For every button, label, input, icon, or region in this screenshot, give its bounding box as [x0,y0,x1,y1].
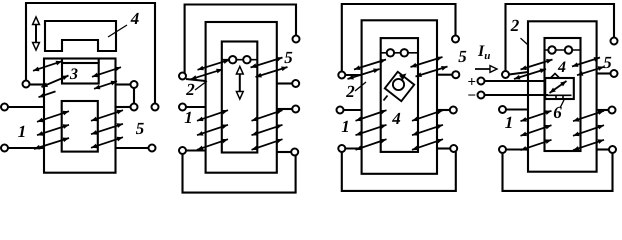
svg-text:−: − [468,88,477,104]
terminal: fig3 winding-1 upper left terminal [337,107,344,114]
wire: fig3 right middle tap to core [437,109,450,111]
moving coil 6 (fig4): bottom conductor line with ticks [548,94,572,96]
terminal: fig1 loop output terminal (right) [152,104,159,111]
terminal: fig4 source − terminal [478,92,485,99]
wire: fig4 winding-1 upper left to core [506,108,528,110]
terminal: fig2 loop end (top right) [293,36,300,43]
svg-text:5: 5 [284,48,293,67]
wire: fig3 bottom right tap to core [437,147,450,149]
callout line for label 4 (fig1) [108,25,127,37]
wire: fig1 right tap lower to core [116,106,132,108]
svg-text:4: 4 [391,109,401,128]
terminal: fig4 bottom right terminal [609,146,616,153]
wire: fig2 outer loop from top-left terminal to top-right terminal [185,5,296,80]
wire: fig4 winding-5 right end to tap terminal [597,72,611,74]
core window (fig2) [222,42,257,153]
winding 5 on right limb (fig4) [572,57,600,67]
svg-text:3: 3 [69,66,78,83]
wire: fig4 bottom left terminal to core [506,148,528,150]
winding on right limb (fig3) [412,110,443,121]
movable core carrier line (fig4) [545,49,581,51]
moving coil 6 (fig4): winding hatch [550,81,567,93]
wire: fig1 winding-5 lower terminal to core [116,147,150,149]
winding 1 on left limb (fig4) [521,110,552,121]
terminal: fig4 winding-2 left terminal [502,71,509,78]
callout line for label 2 (fig2) [195,81,207,90]
svg-text:2: 2 [185,80,195,99]
core: fig3 outer magnetic core [362,20,437,174]
terminal: fig1 winding-1 lower terminal (left) [1,145,8,152]
terminal: fig1 winding-5 lower terminal (right) [149,145,156,152]
terminal: fig3 bottom right terminal [450,145,457,152]
svg-text:1: 1 [18,122,27,141]
wire: fig2 winding-5 right end to tap terminal [277,82,293,84]
wire: fig3 outer loop from top-left terminal to top-right terminal [342,4,456,72]
terminal: fig4 winding-1 upper left terminal [499,106,506,113]
terminal: fig2 winding-1 upper left terminal [179,104,186,111]
wire: fig4 bottom series loop [503,153,613,191]
double arrow: fig1 core movement [33,17,40,50]
wire: fig2 bottom series loop [183,154,296,193]
terminal: fig4 loop end (top right) [611,38,618,45]
moving element: tilted frame with roller (fig3) [384,72,415,101]
core: fig4 outer magnetic core [528,21,597,171]
wire: fig3 bottom left terminal to core [345,147,361,149]
svg-text:5: 5 [603,53,612,72]
core: fig2 outer magnetic core [206,22,277,173]
winding 2 on left limb (fig2) [198,59,230,70]
callout line for label 6 (fig4) [560,100,564,108]
double arrow: fig2 core movement [236,67,243,100]
winding 1 on left limb (fig3) [356,110,387,121]
wire: fig1 outer loop from coil-3 left end over the top to output terminal [26,3,155,104]
wire: fig1 winding-1 lower terminal to core [8,147,44,149]
terminal: fig3 right middle tap [450,107,457,114]
wire: fig2 winding-2 left terminal to core [186,79,206,81]
wire: fig3 bottom series loop [342,152,456,191]
wire: fig2 bottom left terminal to core [186,149,206,151]
terminal: fig3 loop end (top right) [452,36,459,43]
svg-text:1: 1 [184,108,193,127]
svg-text:1: 1 [505,113,514,132]
svg-text:4: 4 [130,9,140,28]
movable core carrier line (fig2) [222,59,257,61]
wire: fig4 bottom right tap to core [597,148,609,150]
winding 5 on right limb (fig2) [251,57,283,68]
terminal: fig4 source + terminal [478,78,485,85]
svg-text:1: 1 [341,117,350,136]
terminal: fig4 bottom left terminal [499,146,506,153]
winding 1 on right limb (fig2) [252,110,283,121]
wire: fig4 outer loop from top-left terminal to top-right terminal [506,4,615,71]
winding on right limb (fig4) [573,110,604,121]
terminal: fig4 right tap upper [611,70,618,77]
wire: fig3 winding-5 right end to tap terminal [437,74,452,76]
wire: fig2 bottom right tap to core [277,151,292,153]
callout line for label 2 (fig4) [521,38,528,44]
core window (fig3) [381,38,418,152]
terminal: fig3 winding-2 left terminal [338,72,345,79]
wire: fig4 source − to moving coil [484,94,548,96]
terminal: fig3 bottom left terminal [338,145,345,152]
wire: fig1 coil-3 right end to tap terminal [116,83,132,85]
terminal: fig2 right middle tap [292,106,299,113]
wire: fig4 right middle tap to core [597,109,609,111]
wire: fig2 right middle tap to core [277,108,293,110]
winding of coil 3, left limb (fig1) [33,61,62,71]
wire: fig1 link between right tap terminals [133,88,135,104]
core window (fig4) [545,38,581,151]
winding 2 on left limb (fig4) [521,59,553,70]
movable core carrier line (fig3) [381,52,418,54]
callout line for label 2 (fig3) [355,82,366,91]
wire: fig1 winding-1 upper terminal to core [8,106,44,108]
terminal: fig2 right tap upper [292,80,299,87]
svg-text:4: 4 [557,59,566,76]
pivot roller right (fig2) [243,56,250,63]
winding 2 on left limb (fig3) [354,59,386,70]
wire: fig3 winding-1 upper left to core [343,109,361,111]
wire: fig1 coil-3 left terminal to core [29,83,44,85]
terminal: fig4 right middle tap [609,107,616,114]
svg-text:5: 5 [458,47,467,66]
core window (fig1) [62,101,98,152]
pivot roller left (fig4) [548,46,555,53]
wire: fig4 source + to moving coil [484,80,546,82]
pivot roller left (fig3) [387,49,394,56]
core: fig1 limb inner edges above coil 3 [61,59,63,64]
moving coil 6 (fig4): frame [545,78,574,99]
wire: fig4 winding-2 left terminal to core [509,72,528,75]
movable core piece 4 (fig1, staple shape) [45,21,116,51]
pivot roller left (fig2) [229,56,236,63]
winding 1 on left limb (fig2) [197,110,228,121]
svg-text:2: 2 [345,82,355,101]
terminal: fig1 right tap upper [131,81,138,88]
terminal: fig2 winding-2 left terminal [179,73,186,80]
terminal: fig1 coil-3 left end terminal [23,81,30,88]
wire: fig3 winding-2 left terminal to core [345,74,362,76]
arrow: I_u current direction [475,66,497,73]
terminal: fig1 right tap lower [131,104,138,111]
winding 5 on right limb (fig3) [411,57,443,68]
core: fig1 outer magnetic core [44,59,116,173]
winding 5 on right limb (fig1) [91,110,123,121]
pivot roller right (fig3) [401,49,408,56]
terminal: fig2 bottom left terminal [179,147,186,154]
svg-text:5: 5 [136,119,145,138]
wire: fig2 winding-1 upper left to core [186,106,206,108]
winding of coil 3, right limb (fig1) [92,67,121,77]
terminal: fig2 bottom right terminal [291,149,298,156]
terminal: fig3 right tap upper [452,71,459,78]
winding 1 on left limb (fig1) [37,111,69,122]
coil 3 body (fig1) [62,63,99,84]
terminal: fig1 winding-1 upper terminal (left) [1,104,8,111]
pivot roller right (fig4) [565,46,572,53]
svg-text:2: 2 [510,16,520,35]
